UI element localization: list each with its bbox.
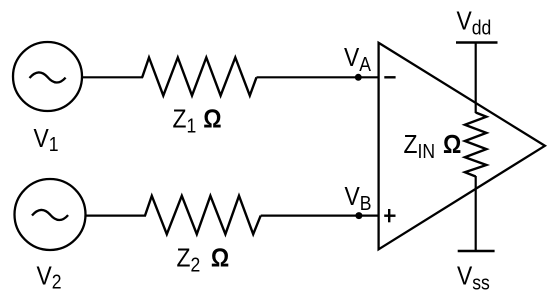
voltage source V1 bbox=[13, 42, 82, 111]
svg-text:V1: V1 bbox=[34, 125, 59, 156]
resistor Z1 bbox=[142, 58, 256, 96]
non-inverting input marker (plus) bbox=[384, 209, 395, 222]
wire Vdd bar to ZIN bbox=[475, 43, 477, 114]
wire V2 to Z2 bbox=[86, 215, 147, 217]
svg-text:Vss: Vss bbox=[457, 262, 490, 294]
Vss supply bar bbox=[458, 250, 495, 253]
wire Z2 to op-amp non-inverting input bbox=[261, 215, 380, 217]
svg-text:Z2Ω: Z2Ω bbox=[177, 244, 230, 276]
node A junction dot bbox=[355, 74, 362, 81]
svg-text:Vdd: Vdd bbox=[457, 7, 492, 39]
node B junction dot bbox=[355, 212, 362, 219]
svg-text:ZINΩ: ZINΩ bbox=[404, 131, 462, 163]
wire V1 to Z1 bbox=[82, 76, 143, 78]
svg-text:Z1Ω: Z1Ω bbox=[173, 105, 222, 137]
resistor Z2 bbox=[145, 196, 261, 234]
svg-text:VA: VA bbox=[344, 44, 371, 76]
svg-text:VB: VB bbox=[345, 183, 372, 215]
wire Z1 to op-amp inverting input bbox=[257, 76, 380, 78]
svg-text:V2: V2 bbox=[37, 262, 62, 293]
voltage source V2 bbox=[15, 179, 86, 250]
resistor ZIN bbox=[465, 113, 487, 177]
Vdd supply bar bbox=[456, 41, 498, 44]
wire ZIN to Vss bar bbox=[475, 176, 477, 251]
inverting input marker (minus) bbox=[384, 76, 395, 78]
op-amp U1 bbox=[379, 43, 545, 250]
